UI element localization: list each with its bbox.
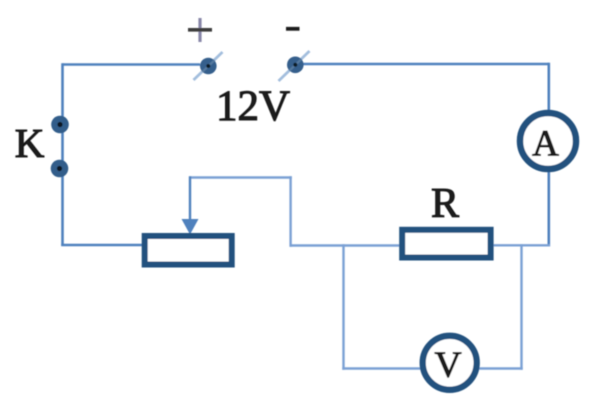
switch contact lower bbox=[51, 160, 69, 178]
svg-text:R: R bbox=[431, 181, 459, 227]
wire junction to R left horizontal bbox=[290, 244, 402, 246]
rheostat body bbox=[145, 236, 232, 265]
switch contact upper bbox=[51, 116, 69, 134]
wire voltmeter loop left vertical bbox=[342, 244, 344, 369]
voltmeter V bbox=[423, 336, 477, 390]
resistor R body bbox=[402, 230, 490, 258]
battery negative terminal bbox=[279, 51, 310, 81]
svg-text:V: V bbox=[434, 345, 461, 386]
minus label bbox=[286, 27, 300, 31]
wire top-right horizontal bbox=[303, 63, 549, 66]
wire voltmeter loop bottom horizontal bbox=[342, 367, 522, 369]
ammeter A bbox=[520, 113, 576, 169]
wire wiper vertical into arrow bbox=[189, 176, 191, 222]
svg-text:A: A bbox=[532, 124, 559, 165]
wire left vertical bbox=[61, 63, 64, 246]
wire wiper loop horizontal bbox=[189, 176, 292, 178]
wire top-left horizontal bbox=[63, 63, 201, 66]
wire right vertical upper (to ammeter) bbox=[547, 63, 550, 111]
rheostat wiper arrowhead bbox=[182, 219, 199, 235]
wire right vertical lower (ammeter to R wire) bbox=[547, 172, 550, 247]
wire bottom-left horizontal bbox=[61, 244, 144, 247]
svg-text:K: K bbox=[15, 120, 45, 166]
wire wiper loop right vertical bbox=[289, 176, 291, 246]
wire voltmeter loop right vertical bbox=[520, 244, 522, 369]
plus label bbox=[188, 18, 212, 42]
battery positive terminal bbox=[194, 52, 223, 80]
svg-text:12V: 12V bbox=[216, 83, 290, 130]
wire R right horizontal bbox=[493, 244, 550, 246]
